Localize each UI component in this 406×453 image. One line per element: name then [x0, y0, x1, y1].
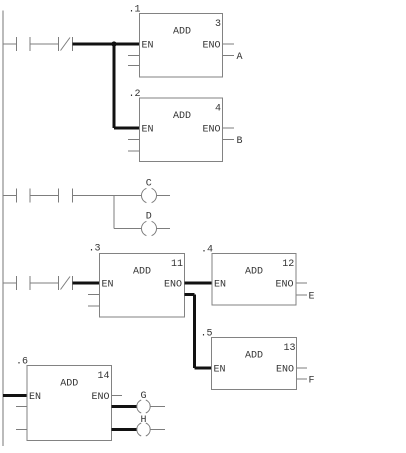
wire block .3 output right segment	[185, 293, 195, 296]
wire rung1 contact1 to contact2	[30, 43, 59, 45]
svg-text:A: A	[237, 52, 243, 63]
wire branch down from junction	[113, 44, 116, 128]
svg-text:F: F	[309, 376, 315, 387]
wire rung2 contact3 to contact4	[30, 195, 59, 197]
wire rail to block .6 EN (power flow)	[3, 394, 27, 397]
svg-text:G: G	[141, 391, 147, 402]
output stub of block .5	[297, 378, 308, 380]
coil G	[137, 400, 150, 413]
wire rung3 contact6 to block U3 EN (power flow)	[73, 282, 100, 285]
wire rung3 rail to contact5	[3, 282, 17, 284]
svg-text:EN: EN	[142, 125, 154, 136]
svg-text:13: 13	[283, 343, 295, 354]
ENO stub of block .4	[296, 282, 307, 284]
wire branch horizontal to coil D	[114, 228, 142, 230]
svg-text:ENO: ENO	[275, 280, 293, 291]
function block ADD .2	[128, 89, 234, 162]
svg-text:12: 12	[282, 259, 294, 270]
contact NO 4 (rung2)	[59, 189, 73, 203]
output stub of block .1	[223, 55, 235, 57]
function block ADD .3	[88, 244, 185, 318]
ENO stub of block .5	[297, 367, 308, 369]
wire block .6 output to coil H (power flow)	[112, 428, 137, 431]
svg-text:ENO: ENO	[91, 392, 109, 403]
contact NC 6 (rung3)	[59, 276, 73, 290]
contact NO 1 (rung1)	[17, 37, 31, 51]
input stub 1 of block .6	[16, 406, 27, 408]
contact NO 3 (rung2)	[17, 189, 31, 203]
svg-text:EN: EN	[214, 365, 226, 376]
input stub 2 of block .3	[88, 305, 100, 307]
wire rung2 rail to contact3	[3, 195, 17, 197]
svg-text:B: B	[237, 136, 243, 147]
wire branch to block U2 EN	[114, 127, 140, 130]
svg-text:EN: EN	[102, 280, 114, 291]
svg-text:.1: .1	[129, 5, 141, 16]
svg-text:C: C	[146, 179, 152, 190]
input stub 2 of block .2	[128, 150, 140, 152]
wire rung3 contact5 to contact6	[30, 282, 59, 284]
wire block .6 output to coil G (power flow)	[112, 405, 137, 408]
contact NO 5 (rung3)	[17, 276, 31, 290]
left power rail	[2, 11, 4, 447]
svg-text:ENO: ENO	[202, 125, 220, 136]
svg-text:EN: EN	[214, 280, 226, 291]
svg-text:ADD: ADD	[133, 267, 151, 278]
svg-text:EN: EN	[29, 392, 41, 403]
input stub 1 of block .1	[128, 55, 140, 57]
wire block .3 output vertical down	[193, 295, 196, 369]
svg-text:.3: .3	[89, 244, 101, 255]
wire rung2 contact4 to coil C	[73, 195, 142, 197]
wire branch down to coil D	[113, 196, 115, 229]
svg-text:.6: .6	[16, 357, 28, 368]
svg-text:14: 14	[97, 371, 109, 382]
svg-text:ADD: ADD	[173, 27, 191, 38]
output stub of block .4	[296, 294, 307, 296]
svg-text:3: 3	[215, 19, 221, 30]
ENO stub of block .2	[223, 127, 235, 129]
svg-text:D: D	[146, 212, 152, 223]
coil H	[137, 423, 150, 436]
input stub 1 of block .3	[88, 294, 100, 296]
svg-text:ENO: ENO	[202, 41, 220, 52]
junction node on rung1	[111, 41, 116, 46]
function block ADD .6	[16, 357, 122, 441]
svg-text:ENO: ENO	[276, 365, 294, 376]
svg-text:.2: .2	[129, 89, 141, 100]
input stub 2 of block .1	[128, 65, 140, 67]
svg-text:ADD: ADD	[60, 379, 78, 390]
svg-text:ADD: ADD	[173, 111, 191, 122]
wire block .3 ENO to block .4 EN (power flow)	[185, 282, 213, 285]
svg-text:EN: EN	[142, 41, 154, 52]
svg-text:4: 4	[215, 104, 221, 115]
ENO stub of block .6	[112, 395, 123, 397]
svg-text:H: H	[141, 415, 147, 426]
input stub 1 of block .2	[128, 139, 140, 141]
svg-text:11: 11	[171, 259, 183, 270]
coil C	[141, 188, 156, 202]
function block ADD .5	[201, 329, 308, 390]
function block ADD .4	[201, 245, 307, 306]
wire after coil H	[151, 429, 166, 431]
wire into block .5 EN	[195, 367, 212, 370]
wire after coil G	[151, 406, 166, 408]
wire rung1 contact2 to block U1 EN (power flow)	[73, 43, 140, 46]
contact NC 2 (rung1)	[59, 37, 73, 51]
input stub 2 of block .6	[16, 429, 27, 431]
wire rung1 rail to contact1	[3, 43, 17, 45]
coil D	[141, 221, 156, 235]
svg-text:.4: .4	[201, 245, 213, 256]
ENO stub of block .1	[223, 43, 235, 45]
svg-text:ENO: ENO	[164, 280, 182, 291]
function block ADD .1	[128, 5, 234, 78]
svg-text:.5: .5	[201, 329, 213, 340]
wire after coil D	[157, 228, 170, 230]
svg-text:E: E	[309, 292, 315, 303]
output stub of block .2	[223, 139, 235, 141]
svg-text:ADD: ADD	[245, 351, 263, 362]
svg-text:ADD: ADD	[245, 267, 263, 278]
wire after coil C	[157, 195, 170, 197]
